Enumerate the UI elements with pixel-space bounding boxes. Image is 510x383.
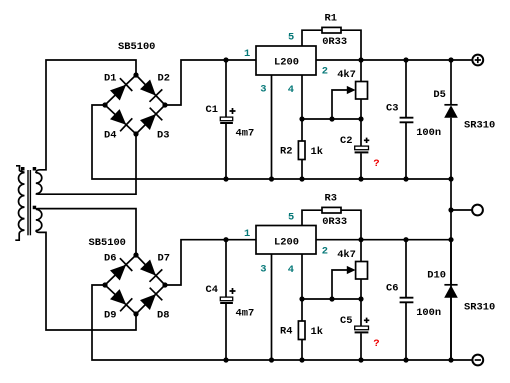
svg-text:3: 3 — [260, 84, 266, 96]
node bridge2 minus — [102, 282, 107, 287]
node bridge1 minus — [102, 102, 107, 107]
transformer secondary winding 2 — [36, 209, 42, 232]
svg-text:1k: 1k — [311, 326, 323, 338]
svg-text:0R33: 0R33 — [322, 216, 347, 228]
wire pin 3 down (bottom) — [271, 254, 273, 360]
resistor R1 — [302, 27, 361, 81]
svg-text:C5: C5 — [340, 315, 352, 327]
op-amp U2 regulator L200 (bottom) — [256, 226, 316, 255]
junction C3 common rail — [403, 176, 408, 181]
svg-text:SR310: SR310 — [464, 119, 495, 131]
svg-text:1: 1 — [244, 228, 250, 240]
potentiometer 4k7 (bottom) — [332, 262, 368, 300]
svg-text:5: 5 — [288, 212, 294, 224]
svg-text:?: ? — [373, 338, 379, 350]
svg-text:1k: 1k — [311, 146, 323, 158]
svg-text:R2: R2 — [280, 145, 292, 157]
junction wiper row lower — [329, 296, 334, 301]
wire secondary2 bottom to bridge2 AC2 — [40, 232, 136, 330]
diode D4 — [110, 109, 132, 131]
junction C1 top rail — [223, 57, 228, 62]
wire bridge1 minus to common rail — [92, 105, 451, 179]
junction C6 bottom rail — [403, 357, 408, 362]
wire junction row (top) — [302, 75, 361, 119]
diode D8 — [140, 288, 162, 310]
svg-text:100n: 100n — [416, 127, 441, 139]
svg-text:D4: D4 — [104, 130, 116, 142]
node bridge1 plus — [162, 102, 167, 107]
wire to 0 terminal — [451, 209, 472, 211]
svg-text:R1: R1 — [325, 13, 337, 25]
svg-text:SB5100: SB5100 — [89, 237, 126, 249]
svg-text:D6: D6 — [104, 253, 116, 265]
svg-text:C1: C1 — [206, 104, 218, 116]
transformer secondary winding 1 — [36, 170, 42, 194]
svg-text:R3: R3 — [325, 193, 337, 205]
capacitor C5 — [355, 299, 370, 360]
svg-text:D8: D8 — [157, 310, 169, 322]
svg-text:4k7: 4k7 — [337, 249, 356, 261]
junction D5 common rail — [448, 176, 453, 181]
svg-text:D9: D9 — [104, 310, 116, 322]
resistor R2 — [298, 119, 305, 179]
junction C1 common rail — [223, 176, 228, 181]
junction pot-C5 row lower — [358, 296, 363, 301]
svg-text:0R33: 0R33 — [322, 36, 347, 48]
junction D10 bottom rail — [448, 357, 453, 362]
capacitor C1 — [220, 60, 235, 179]
junction pin4 row lower — [299, 296, 304, 301]
svg-text:D7: D7 — [158, 253, 170, 265]
svg-text:D10: D10 — [427, 270, 446, 282]
diode D1 — [110, 78, 132, 100]
wire to minus terminal — [451, 359, 472, 361]
svg-text:4: 4 — [288, 264, 294, 276]
transformer phase dot primary — [21, 167, 25, 171]
junction C4 mid rail — [223, 237, 228, 242]
junction C6 mid rail — [403, 237, 408, 242]
wire secondary1 bottom to bridge1 AC2 — [36, 134, 136, 194]
diode D3 — [140, 108, 162, 130]
svg-text:1: 1 — [244, 48, 250, 60]
bridge rectifier 2 SB5100 diamond wires — [105, 255, 165, 314]
svg-text:D3: D3 — [157, 130, 169, 142]
svg-text:4k7: 4k7 — [337, 69, 356, 81]
svg-text:5: 5 — [288, 32, 294, 44]
potentiometer 4k7 (top) — [332, 82, 368, 120]
svg-text:C4: C4 — [206, 284, 218, 296]
wire secondary2 top to bridge2 AC1 — [36, 209, 136, 255]
junction pin3 bottom rail — [269, 357, 274, 362]
resistor R3 — [302, 207, 361, 261]
bridge rectifier 1 SB5100 diamond wires — [105, 75, 165, 134]
capacitor C6 — [400, 240, 414, 360]
node bridge1 AC top — [133, 72, 138, 77]
junction 0-terminal — [448, 207, 453, 212]
output terminal plus — [472, 55, 483, 66]
svg-text:2: 2 — [322, 245, 328, 257]
wire top rail right of L200 — [316, 59, 472, 61]
junction pin3 common rail — [269, 176, 274, 181]
diode D2 — [140, 80, 162, 102]
transformer phase dot secondary 2 — [33, 206, 37, 210]
junction R2 common rail — [299, 176, 304, 181]
node bridge2 AC top — [133, 252, 138, 257]
resistor R4 — [298, 299, 305, 360]
wire pin 3 down (top) — [271, 75, 273, 179]
junction D10 mid rail — [448, 237, 453, 242]
wire bridge1 plus to top rail — [165, 60, 256, 105]
node bridge1 AC bottom — [133, 131, 138, 136]
wire bridge2 plus to mid rail — [165, 240, 256, 285]
junction wiper row — [329, 116, 334, 121]
node bridge2 plus — [162, 282, 167, 287]
diode D6 — [110, 258, 132, 280]
diode D10 — [444, 240, 458, 360]
svg-text:3: 3 — [260, 264, 266, 276]
wire common rail to 0 terminal and lower rail — [450, 179, 452, 360]
svg-text:4m7: 4m7 — [236, 128, 255, 140]
svg-text:C2: C2 — [340, 135, 352, 147]
output terminal minus — [472, 355, 483, 366]
svg-text:100n: 100n — [416, 307, 441, 319]
junction R4 bottom rail — [299, 357, 304, 362]
transformer TR primary winding — [15, 166, 24, 240]
svg-text:D1: D1 — [104, 73, 116, 85]
junction pot-C2 row — [358, 116, 363, 121]
svg-text:D2: D2 — [158, 73, 170, 85]
junction D5 top rail — [448, 57, 453, 62]
svg-text:D5: D5 — [433, 89, 445, 101]
svg-text:?: ? — [373, 158, 379, 170]
svg-text:L200: L200 — [274, 237, 299, 249]
junction C5 bottom rail — [358, 357, 363, 362]
junction R3-pot mid rail — [358, 237, 363, 242]
svg-text:2: 2 — [322, 65, 328, 77]
diode D5 — [444, 60, 458, 179]
transformer phase dot secondary 1 — [33, 167, 37, 171]
svg-text:C3: C3 — [386, 103, 398, 115]
junction C3 top rail — [403, 57, 408, 62]
wire bridge2 minus to bottom rail — [92, 285, 451, 360]
junction R1-pot top rail — [358, 57, 363, 62]
diode D9 — [110, 289, 132, 311]
transformer core — [28, 170, 30, 235]
wire secondary1 top to bridge1 AC1 — [40, 60, 136, 170]
svg-text:SR310: SR310 — [464, 302, 495, 314]
junction C2 common rail — [358, 176, 363, 181]
wire junction row (bottom) — [302, 254, 361, 299]
junction C4 bottom rail — [223, 357, 228, 362]
svg-text:4: 4 — [288, 84, 294, 96]
capacitor C2 — [355, 119, 370, 179]
node bridge2 AC bottom — [133, 311, 138, 316]
output terminal 0 — [472, 205, 483, 216]
op-amp U1 regulator L200 (top) — [256, 46, 316, 75]
svg-text:SB5100: SB5100 — [118, 41, 155, 53]
svg-text:C6: C6 — [386, 283, 398, 295]
wire mid rail right of L200 — [316, 239, 451, 241]
diode D7 — [140, 260, 162, 282]
svg-text:4m7: 4m7 — [236, 308, 255, 320]
svg-text:R4: R4 — [280, 325, 292, 337]
junction pin4 row — [299, 116, 304, 121]
capacitor C4 — [220, 240, 235, 360]
capacitor C3 — [400, 60, 414, 179]
svg-text:L200: L200 — [274, 57, 299, 69]
